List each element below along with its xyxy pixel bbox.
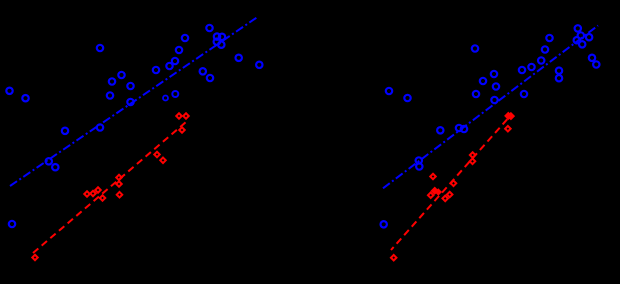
data point: blue circle BR5	[491, 71, 497, 77]
data point: red diamond DL8	[117, 192, 123, 198]
data point: blue circle BR25	[556, 68, 562, 74]
data point: blue circle BL28	[163, 96, 168, 101]
data point: blue circle BR1	[386, 88, 392, 94]
data point: blue circle BL25	[207, 75, 213, 81]
data point: red diamond DL9	[154, 152, 160, 158]
data point: red diamond DL2	[84, 191, 90, 197]
data point: blue circle BL9	[127, 99, 133, 105]
data point: blue circle BL23	[218, 42, 224, 48]
data point: blue circle BR11	[456, 125, 462, 131]
right panel: blue dash-dot regression line	[383, 26, 598, 189]
data point: blue circle BR17	[538, 57, 544, 63]
data point: red diamond DR7	[470, 152, 476, 158]
data point: red diamond DR1	[391, 255, 397, 261]
data point: red diamond DL3	[90, 191, 96, 197]
data point: blue circle BR4	[472, 45, 478, 51]
data point: blue circle BR14	[416, 163, 422, 169]
data point: blue circle BR8	[473, 91, 479, 97]
right panel: red dashed regression line	[391, 114, 512, 250]
data point: blue circle BL7	[127, 83, 133, 89]
data point: blue circle BR10	[437, 127, 443, 133]
data point: blue circle BL19	[206, 25, 212, 31]
data point: blue circle BL24	[200, 68, 206, 74]
data point: blue circle BL21	[219, 34, 225, 40]
data point: blue circle BL29	[172, 91, 178, 97]
data point: blue circle BL4	[97, 45, 103, 51]
data point: red diamond DR6	[447, 192, 453, 198]
data point: red diamond DR2	[430, 174, 436, 180]
data point: blue circle BL6	[109, 78, 115, 84]
data point: blue circle BL16	[172, 58, 178, 64]
data point: blue circle BL17	[176, 47, 182, 53]
data point: red diamond DL1	[32, 255, 38, 261]
data point: red diamond DR4	[428, 192, 434, 198]
data point: blue circle BL5	[118, 72, 124, 78]
left panel: red dashed regression line	[33, 122, 186, 253]
data point: blue circle BL14	[153, 67, 159, 73]
data point: blue circle BL8	[107, 92, 113, 98]
data point: blue circle BR9	[491, 97, 497, 103]
data point: blue circle BR19	[546, 35, 552, 41]
data point: red diamond DL13	[179, 127, 185, 133]
data point: blue circle BL15	[166, 63, 172, 69]
data point: red diamond DL7	[116, 181, 122, 187]
data point: blue circle BR20	[575, 25, 581, 31]
data point: blue circle BL12	[52, 164, 58, 170]
data point: red diamond DR9	[505, 126, 511, 132]
data point: blue circle BL27	[256, 62, 262, 68]
data point: blue circle BR18	[542, 46, 548, 52]
data point: red diamond DL11	[176, 113, 182, 119]
data point: blue circle BL13	[9, 221, 15, 227]
data point: blue circle BR6	[480, 78, 486, 84]
data point: red diamond DL4	[95, 187, 101, 193]
data point: blue circle BR7	[493, 83, 499, 89]
data point: blue circle BL3	[62, 128, 68, 134]
data point: blue circle BL20	[214, 33, 220, 39]
data point: blue circle BL11	[46, 158, 52, 164]
data point: red filled diamond DF4	[508, 113, 515, 120]
data point: blue circle BL26	[236, 55, 242, 61]
data point: red diamond DL10	[160, 158, 166, 164]
data point: blue circle BL22	[214, 39, 220, 45]
data point: red filled diamond DF3	[505, 113, 512, 120]
data point: blue circle BL18	[182, 35, 188, 41]
data point: blue circle BR24	[579, 41, 585, 47]
left panel: blue dash-dot regression line	[10, 18, 257, 186]
data point: red diamond DR5	[442, 196, 448, 202]
data point: blue circle BR16	[528, 64, 534, 70]
data point: red diamond DL6	[116, 175, 122, 181]
data point: blue circle BR13	[416, 157, 422, 163]
data point: blue circle BR2	[404, 95, 410, 101]
data point: red diamond DR3	[451, 181, 457, 187]
data point: blue circle BL2	[22, 95, 28, 101]
data point: blue circle BL10	[97, 124, 103, 130]
data point: red filled diamond DF2	[436, 189, 442, 195]
data point: blue circle BR29	[521, 91, 527, 97]
data point: blue circle BR27	[589, 55, 595, 61]
data point: red diamond DR8	[470, 159, 476, 165]
data point: red filled diamond DF1	[432, 188, 438, 194]
data point: blue circle BR23	[574, 37, 580, 43]
data point: blue circle BR28	[593, 61, 599, 67]
data point: red diamond DL5	[100, 195, 106, 201]
data point: blue circle BR3	[381, 221, 387, 227]
data point: blue circle BR26	[556, 75, 562, 81]
data point: blue circle BR21	[578, 32, 584, 38]
data point: blue circle BR15	[519, 67, 525, 73]
data point: blue circle BR12	[461, 126, 467, 132]
data point: blue circle BL1	[6, 88, 12, 94]
data point: blue circle BR22	[586, 34, 592, 40]
data point: red diamond DL12	[183, 113, 189, 119]
